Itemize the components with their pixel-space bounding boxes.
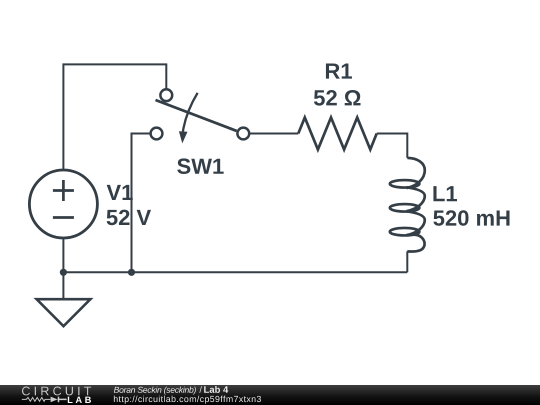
- logo schematic wire with resistor zigzag: [22, 398, 51, 402]
- value 520 mH: [433, 210, 509, 226]
- wire from V1 bottom to ground node: [62, 238, 64, 273]
- footer credit: separator slash: [199, 386, 202, 393]
- value 52 V: [107, 210, 151, 226]
- wire from node to ground symbol: [62, 272, 64, 299]
- voltage source V1 circle: [29, 170, 97, 238]
- node junction dot at V1 bottom: [60, 269, 67, 276]
- logo LAB text: [68, 397, 91, 403]
- footer URL line: [114, 396, 261, 404]
- footer bar: [0, 385, 540, 405]
- footer credit: author name: [114, 387, 196, 395]
- switch SW1 top terminal: [160, 89, 172, 101]
- footer credit: project title Lab 4: [204, 386, 228, 393]
- wire from inductor bottom to bottom rail: [406, 251, 408, 272]
- switch SW1 actuation arrow arc: [183, 93, 198, 132]
- node junction dot at switch branch: [128, 269, 135, 276]
- CircuitLab logo wordmark CIRCUIT: [22, 387, 91, 396]
- switch SW1 left terminal: [151, 128, 163, 140]
- wire from switch right terminal to resistor: [249, 133, 298, 135]
- V1 minus sign: [53, 216, 74, 219]
- ground symbol: [37, 299, 91, 326]
- resistor R1: [298, 118, 376, 150]
- switch SW1 blade: [156, 100, 237, 131]
- label V1: [107, 185, 133, 200]
- switch SW1 right terminal: [237, 128, 249, 140]
- label SW1: [177, 158, 224, 174]
- value 52 ohm: [314, 90, 361, 106]
- label L1: [433, 186, 457, 201]
- switch SW1 arrowhead: [179, 131, 188, 143]
- bottom rail wire: [63, 271, 407, 273]
- wire from switch left terminal down to bottom node: [132, 134, 151, 273]
- V1 plus sign: [53, 180, 74, 201]
- inductor L1 coil: [390, 158, 425, 252]
- logo diode: [51, 397, 58, 403]
- label R1: [326, 64, 352, 79]
- wire from resistor to inductor top: [377, 134, 408, 158]
- wire from V1 top up, across, and down to switch top terminal: [63, 64, 166, 170]
